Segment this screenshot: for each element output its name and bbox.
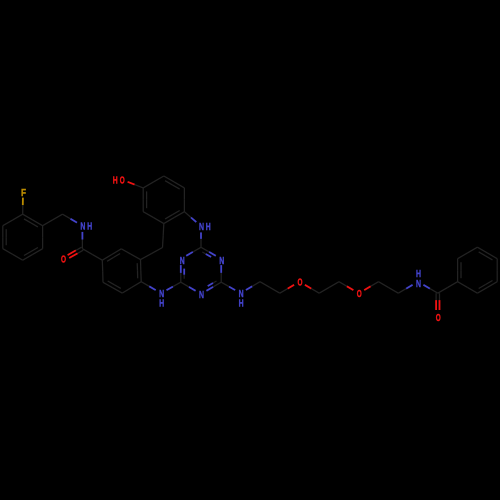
svg-text:O: O [61, 255, 66, 266]
svg-text:N: N [80, 222, 85, 233]
svg-text:N: N [219, 256, 224, 267]
svg-text:O: O [298, 278, 303, 289]
svg-text:H: H [87, 222, 92, 233]
svg-text:H: H [113, 176, 118, 187]
svg-text:F: F [21, 188, 26, 199]
svg-text:H: H [206, 222, 211, 233]
svg-text:N: N [199, 222, 204, 233]
svg-text:H: H [416, 269, 421, 280]
svg-text:O: O [120, 176, 125, 187]
svg-text:H: H [159, 299, 164, 310]
svg-text:O: O [357, 289, 362, 300]
svg-text:H: H [239, 299, 244, 310]
svg-text:N: N [180, 256, 185, 267]
svg-text:N: N [416, 279, 421, 290]
svg-text:N: N [199, 290, 204, 301]
svg-text:O: O [436, 313, 441, 324]
